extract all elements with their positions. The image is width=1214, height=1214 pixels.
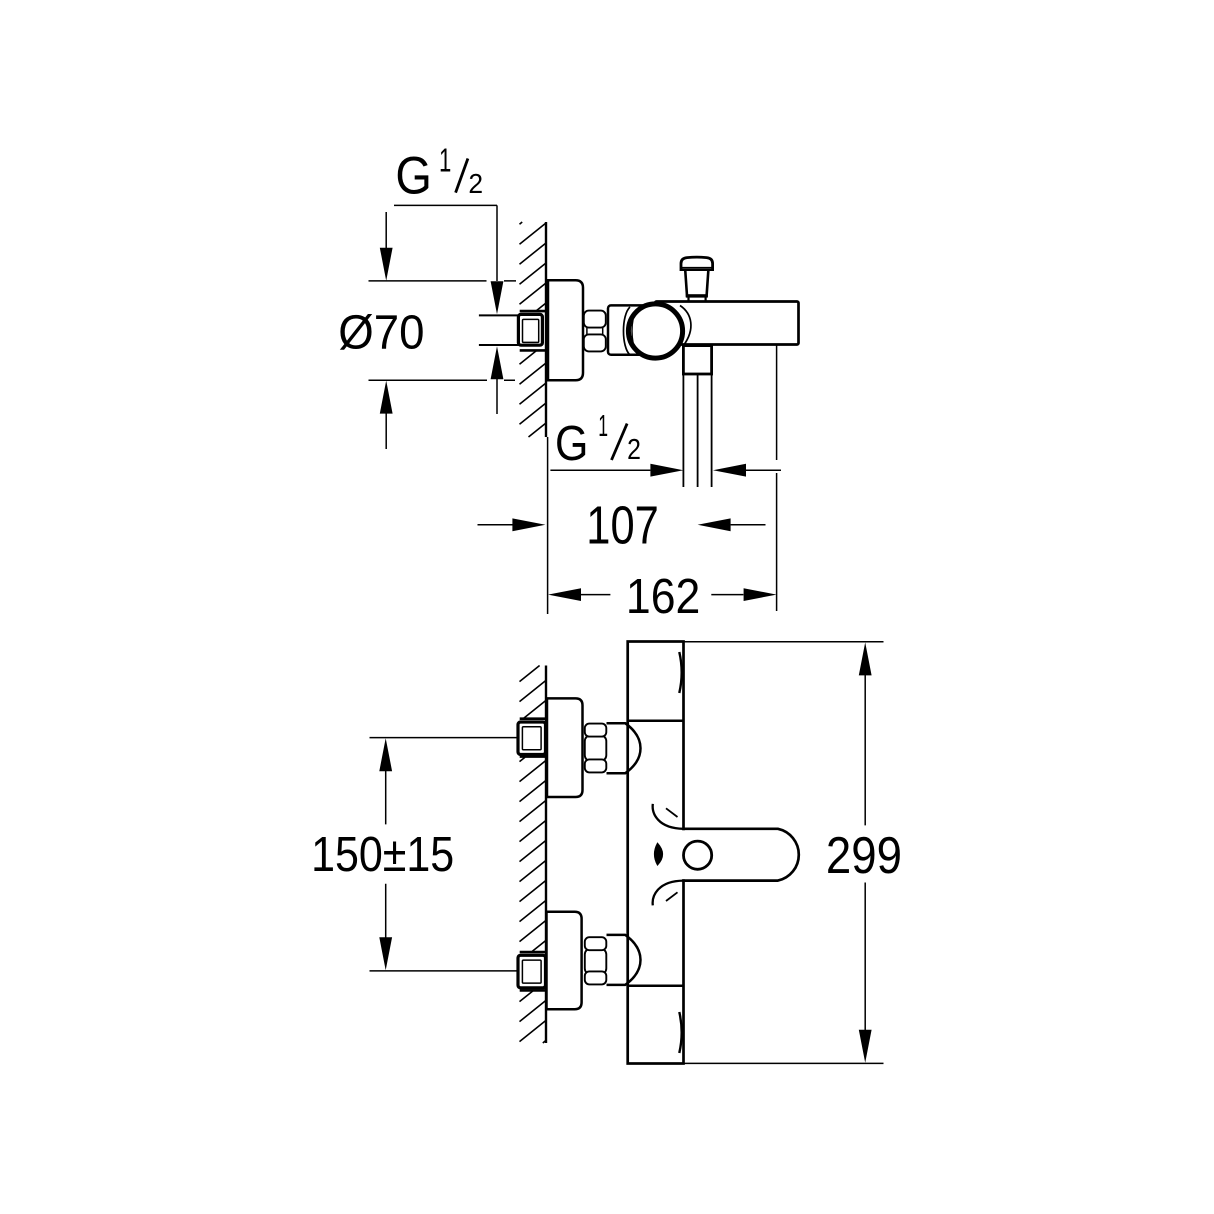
dimension 299 extension lines [684,642,884,1064]
lower flange escutcheon (front view) [547,912,582,1009]
dimension label G 1/2 (top) [395,142,483,205]
diverter knob neck [685,270,708,296]
pipe stub G1/2 (side view) [479,315,519,345]
svg-text:299: 299 [826,827,902,885]
svg-text:2: 2 [468,168,483,199]
wall line (front view) [545,666,547,1044]
faucet body bar (side view) [655,302,799,345]
spout fill [681,830,798,879]
lower hex nut (front view) [585,937,607,984]
dimension label G 1/2 (hose) [555,408,641,471]
hose nipple (side view) [683,346,711,374]
dimension 162 [581,594,743,596]
dimension O70 extension lines [369,281,517,380]
arrowheads G 1/2 (top) [491,281,504,379]
diverter knob cap [681,257,713,270]
spout outline [682,829,798,881]
spout aerator circle [684,841,712,869]
body seam lines [628,721,684,986]
leader lines G 1/2 (top) [394,205,497,414]
svg-text:150±15: 150±15 [311,828,454,882]
svg-text:1: 1 [439,142,451,179]
dimension 150±15 [385,770,387,938]
dimension 162 extension lines [548,346,777,615]
marking crescent [655,843,663,865]
shower hose lines [683,375,711,488]
svg-text:G: G [555,417,588,471]
wall hatching (front view) [520,666,546,1044]
sleeve inner arc [632,311,637,352]
svg-text:2: 2 [627,434,641,466]
valve cap circle [628,304,682,358]
svg-text:162: 162 [626,570,700,624]
upper hex nut (front view) [585,724,607,773]
upper square union nut (front view) [518,722,546,755]
spout parting dashes [666,808,678,901]
spout top fillet [653,804,684,829]
lower S-union dome [607,935,641,985]
wall hatching (side view) [520,222,546,437]
valve housing (side view) [608,305,666,354]
spout bottom fillet [653,881,684,906]
150 extension lines [370,738,518,971]
square union nut (side view) [518,314,542,345]
svg-text:1: 1 [598,408,608,443]
diverter knob stem [689,296,706,302]
hex nut (side view) [584,311,606,352]
dimension line G 1/2 (hose) [550,469,781,471]
housing dome arc right [680,306,691,346]
dimension 299 [864,675,866,1031]
svg-text:107: 107 [586,497,659,556]
wall hole edges lower (front view) [520,952,546,990]
upper flange escutcheon (front view) [547,698,583,797]
dimension 107 [478,524,766,526]
wall hole edges (side view) [520,311,546,350]
dimension O70 arrows [385,212,387,449]
lower square union nut (front view) [518,955,546,988]
thermostat body (front view) [628,642,684,1064]
upper S-union dome [607,723,641,773]
wall flange escutcheon (side view) [548,280,583,380]
body edge arcs [679,652,681,1053]
wall hole edges upper (front view) [520,719,546,757]
svg-text:Ø70: Ø70 [338,306,424,359]
wall line (side view) [545,222,547,437]
svg-text:G: G [395,147,432,206]
cartridge sleeve arc left [623,307,630,355]
